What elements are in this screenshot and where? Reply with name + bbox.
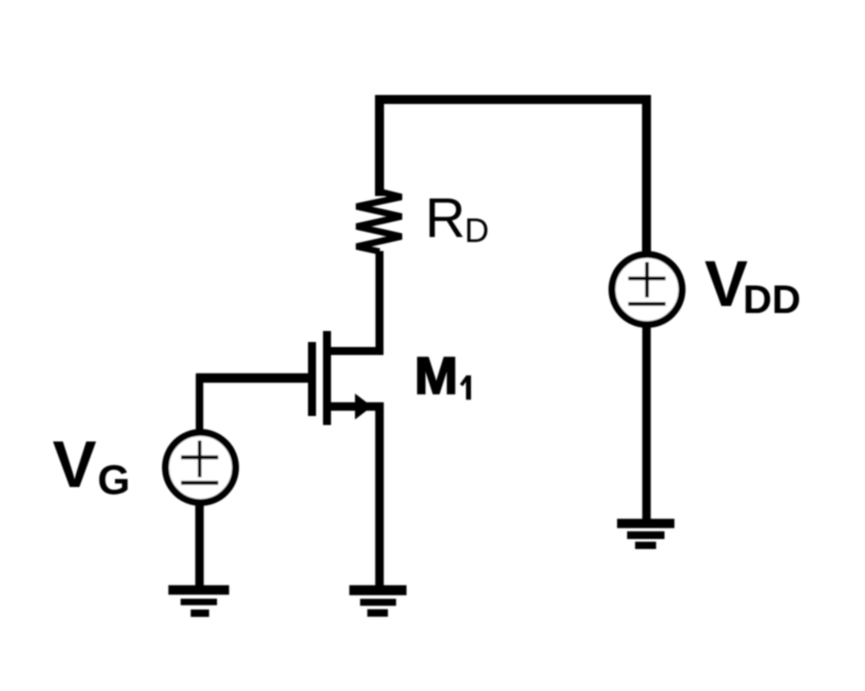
source arrow: [355, 394, 372, 420]
source connection wire: [327, 407, 380, 587]
ground VDD: [617, 519, 674, 549]
svg-text:R: R: [425, 186, 465, 249]
VG minus sign: [181, 481, 218, 485]
voltage source VDD circle: [612, 255, 682, 325]
transistor M1: [312, 331, 380, 586]
gate bar: [308, 342, 316, 416]
resistor RD: [357, 192, 402, 252]
wire VG bottom: [195, 501, 204, 587]
wire gate: [196, 373, 308, 383]
svg-text:D: D: [465, 212, 490, 250]
channel bar: [323, 331, 331, 425]
svg-text:M: M: [415, 348, 458, 406]
ground M1 source: [349, 585, 406, 617]
wire VDD bottom: [642, 321, 651, 523]
svg-text:G: G: [98, 456, 131, 503]
wire top rail (drain node to VDD): [380, 100, 647, 255]
VDD minus sign: [628, 302, 665, 306]
wire resistor to drain: [327, 251, 380, 351]
svg-text:V: V: [53, 427, 97, 501]
VG plus sign: [198, 441, 202, 478]
VDD plus sign: [645, 262, 649, 298]
ground VG: [168, 585, 229, 617]
wire VG top: [196, 374, 204, 434]
svg-text:DD: DD: [743, 278, 801, 322]
svg-text:V: V: [705, 247, 748, 320]
voltage source VG circle: [166, 433, 236, 503]
